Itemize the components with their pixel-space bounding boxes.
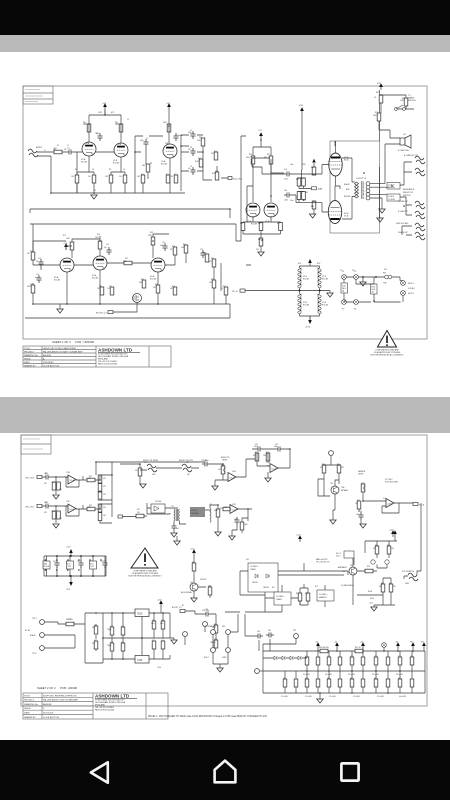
resistor R26 [173,287,177,295]
svg-text:DRAWING No: DRAWING No [24,354,39,357]
wire psu left [45,613,103,663]
supply +15V psu [157,600,163,614]
value labels V1 stage [53,122,173,178]
svg-text:R30: R30 [249,154,252,156]
svg-text:C33: C33 [359,511,362,513]
label BLACK RED BROWN [344,183,351,198]
svg-text:R37: R37 [375,112,378,114]
svg-text:+V1: +V1 [258,130,263,132]
resistor R35 screen [379,95,383,103]
svg-text:100n: 100n [151,623,155,625]
speaker LS1 [400,135,411,148]
decoupling bank rails [44,550,106,582]
wire hum bal [344,277,403,302]
svg-text:R35: R35 [376,92,379,94]
connector T1 [293,630,298,638]
svg-text:ISSUE: ISSUE [24,358,31,360]
revision box entries [25,90,43,102]
capacitor C85 [327,679,331,687]
regulator block C [90,561,97,569]
mosfet Q1 boost [133,294,142,303]
svg-text:R14: R14 [30,251,33,253]
svg-text:R46: R46 [52,511,55,513]
svg-text:R67 1K: R67 1K [355,647,362,649]
svg-text:BIAS: BIAS [318,188,323,191]
svg-text:R16: R16 [97,234,100,236]
svg-text:R18: R18 [150,232,153,234]
svg-text:R1: R1 [57,145,59,147]
capacitor C15 [110,287,114,295]
ground symbol [229,536,235,540]
svg-text:+15V: +15V [157,600,162,602]
svg-text:MPSA42: MPSA42 [341,489,348,492]
svg-text:470R: 470R [98,112,103,114]
svg-text:RL2: RL2 [315,586,318,588]
svg-text:R35: R35 [357,500,360,502]
svg-text:R37: R37 [277,223,280,225]
page 1 frame border [23,86,427,339]
resistor stack R48 [98,504,102,512]
svg-text:VR31: VR31 [361,483,365,485]
svg-text:1K5: 1K5 [105,176,108,178]
svg-text:+V2: +V2 [166,103,171,105]
regulator block A [43,561,50,569]
revision box p2 [21,435,51,454]
ground symbol G4 [379,209,385,213]
svg-text:TITLE: TITLE [24,348,30,350]
svg-text:4-QUAL/DIMING: 4-QUAL/DIMING [341,584,354,587]
svg-text:ECC83: ECC83 [54,280,60,282]
svg-text:D51: D51 [92,627,95,629]
resistor stack R43 [98,475,102,483]
wire transformer taps [370,144,400,209]
resistor stack R45 [98,492,102,500]
svg-text:Q51: Q51 [190,582,193,584]
svg-text:IC2B: IC2B [232,504,236,506]
svg-text:C05: C05 [284,169,287,171]
wires second stage row [33,234,186,304]
triode V5A phase splitter [246,203,260,217]
connector HT left [255,669,263,674]
wire effects row [120,459,257,486]
svg-text:R27: R27 [211,258,214,260]
resistor R10 cathode [141,175,145,183]
svg-text:SUPPLIES, REVERB & EFFECTS: SUPPLIES, REVERB & EFFECTS [43,695,77,697]
ground symbol bias [309,214,315,218]
resistor R31 [255,453,259,461]
svg-text:LEVEL: LEVEL [222,460,228,462]
svg-text:50R: 50R [152,474,156,476]
svg-text:HEATER 2: HEATER 2 [319,596,327,599]
revision box [23,86,53,104]
resistor R46a [52,511,56,519]
jack J3 [415,168,425,176]
wires cap row1 [307,651,412,671]
svg-text:L2-B: L2-B [369,603,373,605]
capacitor C12 [201,250,206,258]
svg-text:BROWN: BROWN [344,196,351,198]
svg-text:C11: C11 [162,242,165,244]
svg-text:1K5: 1K5 [71,176,74,178]
LED LED6 [385,560,389,564]
svg-text:C76: C76 [410,656,413,658]
capacitor C9 bass [191,167,196,175]
svg-text:1K5: 1K5 [97,288,100,290]
resistor R71 [298,593,302,601]
wire ic4 [333,492,413,524]
svg-text:R42: R42 [89,476,92,478]
resistor R11 cathode V2A [174,175,178,183]
svg-text:R10: R10 [141,174,144,176]
label TO MAINS SWITCH [408,95,416,102]
svg-text:C3: C3 [92,169,94,171]
resistor VR3 bass pot [215,172,219,180]
jack J2 ext speaker [404,155,425,164]
svg-text:R34: R34 [337,464,340,466]
resistor VR2 mid pot [199,159,203,167]
tone stack group [181,135,228,191]
svg-text:7815: 7815 [137,613,143,616]
svg-text:IC1B: IC1B [66,501,70,503]
resistor R46b [57,511,61,519]
svg-text:FAX (01702) 420243: FAX (01702) 420243 [98,363,118,366]
svg-text:RED: RED [346,189,350,191]
svg-text:C12: C12 [200,249,203,251]
svg-text:R63: R63 [214,624,217,626]
svg-text:27u 400V: 27u 400V [377,696,385,698]
diode D58 [298,656,301,660]
svg-text:47K: 47K [59,489,63,491]
resistor R6 cathode V1B [109,175,113,183]
wire ic3 [252,449,290,478]
svg-text:C10: C10 [106,244,109,246]
wire psu rails [103,613,170,659]
svg-text:47K: 47K [44,512,48,514]
ground symbol [330,520,336,524]
recents button [341,763,358,780]
svg-text:T21: T21 [171,506,174,508]
supply +15V arrow [389,530,395,538]
svg-text:-15V: -15V [66,589,71,591]
input jack J1 [28,147,43,157]
svg-text:C65: C65 [268,630,271,632]
svg-text:SELECTOR: SELECTOR [403,192,414,194]
connector P22 [183,632,188,637]
svg-text:220K: 220K [302,164,307,166]
svg-text:L21: L21 [209,504,212,506]
svg-text:SHEET 2 OF 2 PCB : AM306: SHEET 2 OF 2 PCB : AM306 [37,686,77,690]
svg-text:C73: C73 [350,656,353,658]
svg-text:ECC83: ECC83 [303,305,309,307]
coil L21 [210,508,211,522]
capacitor C88 [361,679,365,687]
svg-text:C8: C8 [190,147,192,149]
svg-text:MOD-1: MOD-1 [408,283,414,285]
svg-text:TX2-1: TX2-1 [32,618,37,620]
svg-text:C06: C06 [284,190,287,192]
capacitor C65 [266,633,274,638]
svg-text:5: 5 [363,198,364,200]
component reference labels [45,444,413,680]
svg-text:27u 400V: 27u 400V [305,696,313,698]
svg-text:2N7002: 2N7002 [200,579,206,581]
svg-text:C61: C61 [152,620,155,622]
svg-text:01/JUL/03: 01/JUL/03 [43,713,54,715]
svg-text:RO4DB: RO4DB [44,566,50,568]
svg-text:1N4007: 1N4007 [210,642,216,644]
svg-text:1N4148: 1N4148 [252,582,258,584]
transformer TR21 [174,509,180,521]
svg-text:F51: F51 [68,619,71,621]
svg-text:TIP = BOOST L/S: TIP = BOOST L/S [316,562,330,564]
wire HT rail V1 [89,110,121,124]
svg-text:C86: C86 [398,678,401,680]
svg-text:BOOST_LO: BOOST_LO [96,313,107,315]
svg-text:R57: R57 [375,545,378,547]
heater filament V2 [318,268,328,288]
heater filament V3 [298,294,309,314]
wires cap row2 [285,671,412,693]
svg-text:47K: 47K [59,518,63,520]
svg-text:V5-B: V5-B [344,216,349,218]
label impedance selector [403,188,415,197]
svg-text:100p: 100p [234,519,238,521]
resistor R16 anode [98,241,102,249]
value labels phase splitter [246,97,405,251]
svg-text:3: 3 [363,191,364,193]
svg-text:D51: D51 [94,625,97,627]
supply arrow HT b [334,642,339,650]
resistor R2 anode V1A [84,123,91,132]
wire ch1 in [42,477,68,494]
svg-text:R56: R56 [208,586,211,588]
resistor R42 [87,478,95,482]
svg-text:ISSUE 3 : C63 CHANGED TO 100uF: ISSUE 3 : C63 CHANGED TO 100uF (was 47uF… [148,715,268,718]
svg-text:CH2_OUT: CH2_OUT [25,507,35,509]
junction dots page1 [32,94,405,305]
title block p2 [23,693,168,719]
label PT ONLY [385,479,399,484]
svg-text:ECC83: ECC83 [113,163,119,165]
ground symbol G2 [57,309,63,313]
diode D51 [94,626,98,634]
svg-text:F53: F53 [384,269,387,271]
svg-text:BLACK: BLACK [344,183,350,186]
svg-text:47K: 47K [393,586,397,588]
svg-text:100K: 100K [244,524,249,526]
svg-text:HT4: HT4 [299,105,304,107]
back button [91,762,108,782]
page 2 frame border [21,435,427,706]
svg-text:FOR 230V UNIT: FOR 230V UNIT [385,482,399,484]
svg-text:SW1: SW1 [387,187,391,189]
svg-text:PROJECT: PROJECT [24,351,35,353]
wire tube plates to transformer [335,141,355,219]
svg-text:C2: C2 [127,119,129,121]
svg-text:22u: 22u [88,176,91,178]
svg-text:C62: C62 [152,640,155,642]
capacitor C73 [327,657,331,665]
svg-text:VALVE SECTIONS & AMPLIFIER: VALVE SECTIONS & AMPLIFIER [43,347,76,350]
svg-text:C42: C42 [45,502,48,504]
svg-text:EFFECTS SEND: EFFECTS SEND [143,460,159,462]
relay box K2 [317,590,334,601]
svg-text:C60: C60 [121,642,124,644]
transformer core [361,181,363,199]
svg-text:1-4 GRN: 1-4 GRN [388,199,395,201]
capacitor C7 treble [191,131,196,139]
svg-text:ECC83: ECC83 [92,278,98,280]
svg-text:R39: R39 [258,239,261,241]
svg-text:RL1: RL1 [272,587,275,589]
jack J7 slave out [398,231,425,240]
resistor R23 cathode V3B [100,287,104,295]
svg-text:HTR: HTR [298,263,302,265]
svg-text:27u 400V: 27u 400V [281,696,289,698]
svg-text:4K7: 4K7 [341,467,344,469]
svg-text:C63: C63 [205,609,208,611]
capacitor C52 [77,560,84,568]
connector A1 [324,451,339,465]
svg-text:R24: R24 [141,279,144,281]
svg-text:IC2A: IC2A [232,470,236,473]
jack J4 4 ohm [398,201,425,209]
jack footswitch [405,573,418,585]
svg-text:ECC83: ECC83 [322,279,328,281]
svg-text:EFFECTS RTN: EFFECTS RTN [179,460,193,462]
resistor R15 anode V3A [70,242,74,250]
svg-text:-15V: -15V [157,667,162,669]
resistor R34b leak pair bottom [297,192,305,200]
wire standby [213,614,238,668]
svg-text:+15V: +15V [190,549,195,551]
capacitor C74 [338,657,342,665]
svg-text:J22: J22 [186,462,189,464]
resistor R33b leak pair top [297,178,305,186]
ground symbol [215,532,221,536]
svg-text:ISSUE: ISSUE [24,708,31,710]
diode D21 [252,574,258,584]
ground symbol G1 [91,195,97,199]
svg-text:22K: 22K [103,515,107,517]
svg-text:C13: C13 [38,258,41,260]
capacitor C63a [161,621,165,629]
phase splitter rail [253,139,271,202]
svg-text:R21: R21 [204,253,207,255]
capacitor C8 mid [191,148,196,156]
ground symbol [53,495,59,499]
wire tr9 [318,473,339,510]
ground symbol standby [217,668,223,672]
svg-text:22n: 22n [36,261,39,263]
warning triangle W1 [378,331,397,348]
resistor R14 input [31,252,35,260]
svg-text:+V3: +V3 [360,642,363,644]
svg-text:100n: 100n [356,514,360,516]
svg-text:R22: R22 [125,258,128,260]
ground symbol [360,524,366,528]
connector P3 heater AC [342,300,347,311]
resistor R24 [142,280,146,288]
node CH2_OUT [25,504,42,508]
resistor R33 grid top [312,167,316,175]
svg-text:BL: BL [182,605,184,607]
capacitor C53 [101,560,108,568]
svg-text:C1: C1 [67,148,70,150]
junction dots bank [56,555,94,577]
resistor stack R49 [98,513,102,521]
wire boost cluster [353,554,421,607]
svg-text:BLACK: BLACK [30,634,36,637]
svg-text:R2: R2 [83,122,85,124]
jack J5 8 ohm [398,211,425,219]
svg-text:IC4: IC4 [383,498,386,500]
capacitor C33 [359,512,364,520]
capacitor C77 [374,657,378,665]
relay box K1 [274,592,291,605]
resistor R9 anode V2A [167,124,171,132]
svg-text:FALLEN ANGEL 60W GUITAR AMP: FALLEN ANGEL 60W GUITAR AMP [43,699,79,702]
svg-text:100n: 100n [284,200,288,202]
svg-text:+15V: +15V [66,547,71,549]
diode D52 [94,641,98,649]
svg-text:+6.3V: +6.3V [305,327,311,329]
capacitor C3 cathode V1A [92,175,96,183]
svg-text:100n: 100n [284,179,288,181]
ground symbol [53,524,59,528]
revision box entries p2 [23,439,43,449]
svg-text:V1B: V1B [118,144,121,146]
connector TX2-2 [30,633,44,638]
svg-text:8 OHM ONLY: 8 OHM ONLY [398,150,410,152]
value labels page2 psu [92,623,217,647]
svg-text:S2-A: S2-A [368,590,373,593]
capacitor C11 [163,243,168,251]
svg-text:+V3: +V3 [102,103,107,105]
resistor R28 [212,280,216,288]
output transformer T1 secondary [366,182,370,200]
svg-text:R11: R11 [174,174,177,176]
svg-text:CHAN 2: CHAN 2 [276,598,282,601]
supply bias arrow [312,159,316,163]
svg-text:C7: C7 [190,130,192,132]
wire top bus [96,462,205,475]
svg-text:R47: R47 [89,505,92,507]
svg-text:47K: 47K [103,486,107,488]
svg-text:220K: 220K [302,200,307,202]
svg-text:C63: C63 [161,620,164,622]
opto PC900 [151,504,165,513]
capacitor C2 [96,133,103,141]
svg-text:+15V: +15V [389,530,394,532]
connector TX2-3 [32,646,44,655]
ground symbol [212,486,218,490]
svg-text:C83: C83 [327,678,330,680]
svg-text:C32: C32 [275,444,278,446]
svg-text:D21-1: D21-1 [336,556,341,558]
supply +VH arrow [299,105,304,174]
capacitor C10 [107,247,112,255]
regulator 7815 [135,609,149,617]
svg-text:P1: P1 [340,270,342,272]
svg-text:C15: C15 [109,286,112,288]
value labels second row [27,235,224,290]
capacitor C61 [152,621,156,629]
capacitor C60 [121,643,125,651]
svg-text:22n: 22n [188,149,191,151]
svg-text:MUST BE REPLACED ACCORDINGLY: MUST BE REPLACED ACCORDINGLY [370,354,404,357]
label 27u 400V [281,696,407,698]
